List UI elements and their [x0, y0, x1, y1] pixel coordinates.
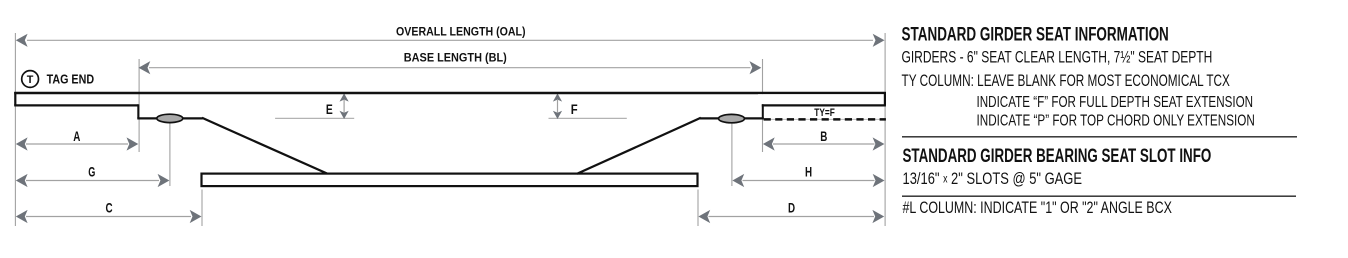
- svg-text:13/16" x 2" SLOTS @ 5" GAGE: 13/16" x 2" SLOTS @ 5" GAGE: [903, 169, 1083, 188]
- rule 1: [902, 136, 1297, 138]
- left web diagonal: [202, 118, 328, 174]
- svg-text:E: E: [326, 102, 333, 117]
- svg-text:H: H: [805, 163, 812, 179]
- right seat bottom: [762, 104, 886, 106]
- svg-text:C: C: [105, 199, 112, 215]
- svg-text:BASE LENGTH (BL): BASE LENGTH (BL): [404, 51, 507, 64]
- svg-text:STANDARD GIRDER SEAT INFORMATI: STANDARD GIRDER SEAT INFORMATION: [902, 25, 1169, 46]
- dashed seat extension TY=F: [764, 118, 886, 121]
- left seat chord line: [137, 117, 203, 119]
- dimension BL line: [149, 67, 751, 69]
- extension line at C right: [201, 190, 203, 227]
- svg-text:TY=F: TY=F: [814, 107, 835, 119]
- svg-text:G: G: [88, 163, 95, 179]
- dimension OAL arrowheads: [16, 34, 28, 47]
- dimension A line: [26, 143, 128, 145]
- extension line left end: [14, 33, 16, 226]
- dimension F reference line: [549, 117, 627, 119]
- svg-text:INDICATE “F” FOR FULL DEPTH SE: INDICATE “F” FOR FULL DEPTH SEAT EXTENSI…: [977, 94, 1254, 111]
- svg-text:OVERALL LENGTH (OAL): OVERALL LENGTH (OAL): [396, 25, 526, 38]
- dimension F arrow: [557, 100, 559, 113]
- svg-text:TAG END: TAG END: [47, 72, 95, 87]
- dimension E arrow: [343, 100, 345, 113]
- dimension H line: [743, 180, 875, 182]
- dimension BL arrowheads: [139, 61, 151, 74]
- svg-text:STANDARD GIRDER BEARING SEAT S: STANDARD GIRDER BEARING SEAT SLOT INFO: [903, 146, 1212, 167]
- dashed extension underlay: [764, 118, 886, 120]
- svg-text:A: A: [73, 128, 80, 144]
- svg-text:D: D: [788, 199, 795, 215]
- bottom chord: [202, 174, 698, 187]
- extension line below right slot: [731, 124, 733, 187]
- dimension B line: [773, 143, 875, 145]
- extension line at BL right / B left: [762, 59, 764, 152]
- extension line at BL left / A right: [138, 59, 140, 152]
- dimension OAL line: [27, 39, 873, 41]
- dimension E reference line: [275, 117, 354, 119]
- right web diagonal: [577, 118, 701, 174]
- top chord line: [14, 92, 886, 94]
- left seat box: [15, 93, 138, 105]
- svg-text:#L COLUMN: INDICATE "1" OR "2": #L COLUMN: INDICATE "1" OR "2" ANGLE BCX: [903, 198, 1172, 217]
- left bearing slot: [157, 114, 183, 122]
- svg-text:B: B: [820, 128, 827, 144]
- dimension C line: [26, 216, 191, 218]
- tag end circle T: [22, 71, 39, 88]
- svg-text:GIRDERS - 6" SEAT CLEAR LENGTH: GIRDERS - 6" SEAT CLEAR LENGTH, 7½" SEAT…: [902, 47, 1213, 66]
- dimension G line: [26, 180, 159, 182]
- svg-text:F: F: [571, 102, 578, 117]
- svg-text:T: T: [27, 74, 34, 86]
- extension line at D left: [697, 190, 699, 227]
- svg-text:INDICATE “P” FOR TOP CHORD ONL: INDICATE “P” FOR TOP CHORD ONLY EXTENSIO…: [977, 112, 1255, 129]
- left seat step: [137, 104, 139, 118]
- rule 2: [902, 195, 1296, 197]
- right seat edge: [884, 92, 886, 105]
- extension line right end: [884, 33, 886, 226]
- svg-text:TY COLUMN: LEAVE BLANK FOR MOS: TY COLUMN: LEAVE BLANK FOR MOST ECONOMIC…: [902, 71, 1230, 90]
- extension line below left slot: [169, 124, 171, 187]
- right bearing slot: [719, 114, 745, 122]
- right seat step: [762, 104, 764, 118]
- right seat fill: [758, 94, 884, 104]
- right seat chord line: [700, 117, 764, 119]
- dimension D line: [709, 216, 875, 218]
